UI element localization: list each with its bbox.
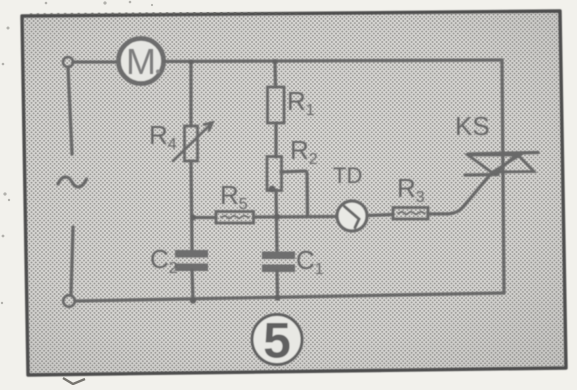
- triac KS lower bar: [465, 173, 498, 177]
- paper specks outside frame: [1, 1, 153, 304]
- terminal (top left): [63, 57, 73, 67]
- junction node at branch3/top wire: [272, 59, 277, 64]
- wire C2 to bottom bus: [192, 270, 193, 301]
- wire R3 to triac gate: [428, 173, 492, 215]
- motor U=M circle: [119, 39, 164, 84]
- capacitor C2 plates: [175, 250, 208, 258]
- triac KS top bar: [468, 153, 538, 155]
- wire terminal to motor: [73, 60, 118, 63]
- svg-text:M: M: [126, 41, 156, 82]
- tunnel diode TD circle: [337, 201, 367, 231]
- TD inner symbol: [345, 207, 360, 228]
- junction node branch2/mid bus: [190, 215, 196, 221]
- svg-text:KS: KS: [455, 111, 490, 141]
- wire motor to top-right corner: [164, 60, 502, 62]
- wire R4 to C2: [191, 161, 192, 250]
- terminal (bottom left): [63, 295, 75, 307]
- wire branch 3 top (to R1): [273, 62, 277, 87]
- wire mid bus left (branch2 to R5): [193, 216, 216, 219]
- wire R5 to TD: [254, 215, 338, 219]
- wire right side vertical: [502, 60, 504, 293]
- resistor R3 body: [393, 208, 428, 220]
- resistor R1 body: [268, 87, 285, 123]
- svg-text:5: 5: [263, 313, 291, 369]
- resistor R4 body: [185, 126, 198, 161]
- junction node at branch2/top wire: [188, 59, 193, 64]
- wire left vertical lower segment: [71, 227, 73, 295]
- resistor R2 body: [267, 157, 282, 191]
- pencil mark below frame: [63, 378, 85, 384]
- AC source tilde: [58, 177, 87, 187]
- triac KS upper triangle: [468, 155, 520, 173]
- junction node branch3/bottom bus: [275, 295, 281, 301]
- wire R1 to R2: [274, 123, 277, 157]
- wire left vertical upper segment: [68, 67, 72, 154]
- wire bottom bus: [76, 293, 504, 301]
- junction node branch2/bottom bus: [190, 297, 196, 303]
- wire branch 2 top (to R4): [189, 62, 192, 126]
- junction node branch3/mid bus: [274, 214, 280, 220]
- wire R2 tap to TD node: [281, 171, 308, 216]
- label circle figure number 5: [252, 313, 302, 369]
- R3 inner scribble: [398, 212, 425, 215]
- frame top edge perforation bumps: [30, 12, 300, 14]
- wire C1 to bottom bus: [275, 271, 279, 298]
- R5 inner scribble: [221, 216, 249, 219]
- R4 variable arrow: [173, 123, 213, 162]
- wire R2 to C1: [276, 190, 277, 252]
- junction node R2 bottom: [269, 186, 276, 193]
- svg-text:TD: TD: [333, 163, 362, 188]
- resistor R5 body: [216, 212, 254, 224]
- wire TD to R3: [368, 215, 394, 216]
- triac KS lower triangle: [497, 154, 534, 172]
- capacitor C1 plates: [262, 252, 295, 260]
- vignette shading over print area: [0, 0, 1, 1]
